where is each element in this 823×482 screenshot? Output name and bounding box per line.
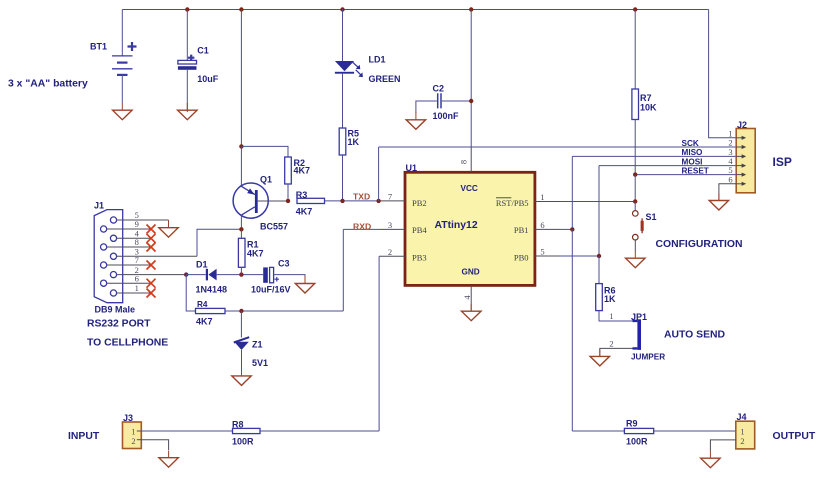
switch S1: [633, 211, 644, 240]
J2 pin 3 stub and arrow: [736, 154, 746, 158]
svg-text:GND: GND: [462, 268, 480, 277]
wire battery BT1 bottom: [121, 75, 123, 103]
svg-text:RST/PB5: RST/PB5: [496, 198, 529, 208]
svg-text:3: 3: [388, 220, 392, 230]
wire PB1 to OUTPUT riser: [560, 228, 572, 230]
resistor R9: [624, 428, 653, 433]
svg-text:6: 6: [135, 273, 139, 283]
junction Q1 collector node: [239, 227, 243, 231]
junction J1 pin2 / R4 branch: [184, 272, 188, 276]
zener diode Z1: [234, 337, 249, 350]
svg-text:4K7: 4K7: [294, 166, 311, 176]
jumper JP1: [633, 319, 642, 350]
svg-text:RESET: RESET: [682, 166, 709, 175]
wire RST net chip to S1: [560, 201, 635, 203]
wire C2 left: [416, 101, 437, 113]
svg-text:R7: R7: [640, 93, 652, 103]
wire C1 bottom: [186, 70, 188, 112]
svg-text:4K7: 4K7: [247, 249, 264, 259]
svg-text:S1: S1: [646, 212, 657, 222]
wire SCK vertical riser: [378, 147, 380, 201]
wire J3 pin1 to R8: [141, 430, 232, 432]
no-connect X pin 9: [147, 225, 156, 234]
wire D1 to R1/C3 node: [217, 274, 264, 276]
wire Q1 emitter column: [240, 10, 242, 147]
svg-text:INPUT: INPUT: [68, 431, 100, 442]
wire C1 top: [186, 10, 188, 61]
pin 8 stub VCC top: [470, 147, 472, 172]
no-connect X pin 7: [147, 261, 156, 270]
wire TXD net R3 to R5: [325, 200, 379, 202]
svg-text:AUTO SEND: AUTO SEND: [664, 330, 726, 341]
connector J1 DB9 body: [94, 210, 123, 303]
svg-text:2: 2: [740, 436, 744, 446]
wire J4 pin2 to ground: [710, 440, 735, 451]
J2 pin 6 stub and arrow: [736, 182, 746, 186]
svg-text:3 x "AA" battery: 3 x "AA" battery: [8, 79, 88, 90]
svg-text:4K7: 4K7: [196, 317, 213, 327]
wire pin3 riser to collector line: [197, 229, 241, 256]
resistor R4: [196, 308, 226, 313]
svg-text:R9: R9: [626, 419, 638, 429]
wire Q1 collector down: [240, 215, 242, 229]
J1 pin 7 wire: [107, 264, 152, 266]
svg-text:JP1: JP1: [631, 312, 647, 322]
junction RST/S1: [633, 199, 637, 203]
svg-text:PB2: PB2: [412, 198, 427, 208]
J1 pin 1 wire: [117, 292, 152, 294]
pin 4 stub GND bottom: [470, 285, 472, 311]
junction C2/VCC: [469, 99, 473, 103]
resistor R2: [285, 157, 292, 184]
wire R6 bottom to JP1 pin1: [599, 311, 633, 321]
svg-text:J2: J2: [737, 120, 747, 130]
pin name RST/PB5 with overline: [496, 198, 529, 208]
wire J2 pin6 to ground: [719, 184, 736, 200]
svg-text:C1: C1: [197, 46, 209, 56]
svg-text:1N4148: 1N4148: [196, 285, 228, 295]
svg-text:10uF/16V: 10uF/16V: [251, 285, 291, 295]
svg-text:RXD: RXD: [353, 222, 371, 232]
wire MOSI riser to PB0: [598, 166, 600, 256]
svg-text:6: 6: [728, 174, 732, 184]
wire R7 bottom to RESET: [634, 120, 636, 175]
wire to R2 top: [241, 146, 288, 157]
wire R1 top to collector node: [240, 229, 242, 238]
J3 pin 2 stub: [137, 439, 142, 441]
junction emitter/R2 node: [239, 144, 243, 148]
pin 5 stub PB0: [535, 255, 560, 257]
svg-text:TO CELLPHONE: TO CELLPHONE: [87, 338, 168, 349]
wire MISO net: [572, 155, 736, 157]
resistor R5: [339, 128, 346, 155]
junction R7 top rail: [633, 7, 637, 11]
svg-text:1K: 1K: [604, 294, 616, 304]
connector J4 body: [736, 421, 755, 449]
J2 pin 2 stub and arrow: [736, 145, 746, 149]
wire R1 bottom: [240, 267, 242, 274]
resistor R8: [233, 428, 261, 433]
no-connect X pin 1: [147, 289, 156, 298]
J3 pin 1 stub: [137, 430, 142, 432]
ground below S1: [626, 251, 645, 268]
svg-text:U1: U1: [406, 163, 418, 173]
svg-text:D1: D1: [196, 260, 208, 270]
J1 pin 8 circle: [101, 244, 107, 250]
svg-text:Z1: Z1: [252, 340, 263, 350]
svg-text:J3: J3: [123, 413, 133, 423]
ground below Z1: [232, 369, 251, 385]
wire PB3 riser: [378, 256, 380, 431]
J1 pin 9 wire: [107, 228, 152, 230]
svg-text:8: 8: [459, 160, 469, 164]
pin 2 stub PB3: [379, 255, 405, 257]
svg-text:CONFIGURATION: CONFIGURATION: [656, 239, 743, 250]
wire emitter into Q1: [240, 146, 242, 186]
wire JP1 pin 2 to ground: [600, 348, 633, 356]
svg-text:TXD: TXD: [353, 192, 370, 202]
svg-text:J1: J1: [94, 201, 104, 211]
ground at J2 pin 6: [709, 194, 728, 211]
junction R5/TXD: [340, 199, 344, 203]
svg-text:BC557: BC557: [260, 222, 288, 232]
wire RESET to RST pin line: [634, 175, 636, 202]
svg-text:PB3: PB3: [412, 253, 427, 263]
ground at J4 pin 2: [701, 451, 720, 468]
ground below BT1: [113, 103, 132, 120]
wire J3 pin2 to ground: [141, 440, 168, 450]
svg-text:7: 7: [135, 255, 139, 265]
wire Z1 bottom: [241, 350, 243, 376]
ground below C2: [406, 112, 425, 129]
wire OUTPUT riser corner to R9: [572, 430, 624, 432]
J1 pin 8 wire: [107, 246, 152, 248]
J1 pin 4 wire: [117, 237, 152, 239]
wire battery BT1 top: [121, 10, 123, 56]
resistor R7: [632, 89, 639, 120]
wire Z1 top: [240, 311, 242, 338]
wire pin2 node to D1: [186, 274, 206, 276]
battery BT1: [112, 42, 137, 75]
ground at JP1 pin 2: [590, 350, 609, 366]
J1 pin 5 wire: [117, 219, 169, 221]
wire MISO riser to PB1: [571, 156, 573, 229]
junction PB0/MOSI/R6: [597, 254, 601, 258]
no-connect X pin 6: [147, 279, 156, 288]
svg-text:1: 1: [740, 426, 744, 436]
svg-text:100nF: 100nF: [433, 111, 460, 121]
wire RXD vertical riser from R4 line: [342, 229, 344, 311]
ground at J3 pin 2: [159, 451, 178, 468]
J1 pin 9 circle: [101, 226, 107, 232]
junction D1/R1/C3 node: [239, 272, 243, 276]
wire pin2 node down to R4: [186, 275, 195, 311]
svg-text:10K: 10K: [640, 103, 657, 113]
J2 pin 4 stub and arrow: [736, 164, 746, 168]
svg-text:LD1: LD1: [369, 55, 386, 65]
svg-text:BT1: BT1: [90, 42, 107, 52]
junction C1 top: [185, 7, 189, 11]
wire OUTPUT riser down: [571, 229, 573, 431]
svg-text:100R: 100R: [626, 437, 648, 447]
svg-text:SCK: SCK: [682, 139, 699, 148]
junction R2/R3/base node: [286, 199, 290, 203]
svg-text:C3: C3: [278, 259, 290, 269]
wire SCK net: [379, 146, 737, 148]
wire PB0 to R6: [560, 255, 599, 257]
svg-text:MISO: MISO: [682, 148, 704, 157]
IC U1 ATtiny12 body: [405, 172, 535, 285]
svg-text:VCC: VCC: [461, 184, 478, 193]
svg-text:R4: R4: [197, 300, 208, 309]
svg-text:4K7: 4K7: [296, 207, 313, 217]
wire RESET net: [635, 174, 736, 176]
J1 pin 3 wire to riser: [117, 255, 197, 257]
svg-text:R3: R3: [296, 190, 308, 200]
svg-text:MOSI: MOSI: [682, 157, 703, 166]
svg-text:J4: J4: [737, 412, 747, 422]
svg-text:5: 5: [540, 247, 544, 257]
svg-text:OUTPUT: OUTPUT: [773, 431, 816, 442]
J4 pin 1 stub: [736, 430, 740, 432]
wire R8 to PB3 riser: [260, 430, 379, 432]
J1 pin 2 circle: [110, 272, 116, 278]
wire S1 bottom: [634, 240, 636, 252]
ground at J1 pin 5: [159, 220, 178, 237]
svg-text:7: 7: [388, 192, 392, 202]
pin 7 stub PB2: [379, 200, 405, 202]
J2 pin 5 stub and arrow: [736, 173, 746, 177]
wire LED to R5: [342, 74, 344, 128]
wire MOSI net: [599, 165, 736, 167]
wire C3 to ground: [274, 275, 305, 283]
capacitor C3: [263, 267, 279, 282]
connector J2 ISP body: [736, 129, 755, 193]
wire VCC column to chip: [470, 10, 472, 148]
svg-text:RS232 PORT: RS232 PORT: [87, 319, 151, 330]
resistor R3: [297, 198, 325, 203]
svg-text:1: 1: [540, 192, 544, 202]
wire S1 top: [634, 202, 636, 211]
svg-text:ATtiny12: ATtiny12: [435, 220, 478, 231]
wire VCC top rail: [122, 9, 708, 11]
ground at C3: [295, 276, 314, 293]
svg-text:DB9 Male: DB9 Male: [95, 305, 136, 315]
J1 pin 7 circle: [101, 262, 107, 268]
svg-text:5V1: 5V1: [252, 358, 268, 368]
connector J3 body: [123, 422, 142, 449]
svg-text:2: 2: [131, 436, 135, 446]
wire LED top: [342, 10, 344, 62]
svg-text:PB4: PB4: [412, 225, 427, 235]
J1 pin 3 circle: [110, 253, 116, 259]
junction LED branch: [340, 7, 344, 11]
svg-text:2: 2: [609, 339, 613, 349]
capacitor C2: [438, 93, 441, 108]
junction SCK/TXD: [376, 199, 380, 203]
junction Q1 branch: [239, 7, 243, 11]
wire R4 to RXD riser: [225, 310, 343, 312]
svg-text:10uF: 10uF: [197, 74, 219, 84]
J1 pin 6 circle: [101, 280, 107, 286]
svg-text:1K: 1K: [348, 137, 360, 147]
junction PB1/MISO/OUTPUT: [570, 227, 574, 231]
svg-text:JUMPER: JUMPER: [631, 353, 665, 362]
resistor R1: [238, 238, 245, 267]
ground below U1 GND pin: [462, 304, 482, 321]
wire R5 bottom: [342, 155, 344, 201]
junction R4/Z1: [239, 309, 243, 313]
pin 6 stub PB1: [535, 228, 560, 230]
transistor Q1: [233, 183, 288, 218]
pin 1 stub RST/PB5: [535, 201, 560, 203]
svg-text:R8: R8: [232, 420, 244, 430]
junction VCC column top: [469, 7, 473, 11]
LED LD1: [335, 61, 363, 77]
svg-text:2: 2: [388, 247, 392, 257]
J4 pin 2 stub: [736, 439, 740, 441]
wire R7 top: [634, 10, 636, 90]
svg-text:C2: C2: [433, 84, 445, 94]
J1 pin 4 circle: [110, 235, 116, 241]
resistor R6: [596, 284, 603, 311]
no-connect X pin 8: [147, 243, 156, 252]
J1 pin 6 wire: [107, 282, 152, 284]
pin 3 stub PB4: [380, 228, 405, 230]
wire R2 bottom: [287, 184, 289, 201]
J1 pin 5 circle: [110, 217, 116, 223]
wire R9 to J4 pin1: [654, 430, 736, 432]
wire R6 top: [598, 256, 600, 284]
J2 pin 1 stub and arrow: [736, 136, 746, 140]
wire RXD horizontal: [343, 228, 380, 230]
svg-text:PB0: PB0: [514, 253, 529, 263]
svg-text:1: 1: [135, 283, 139, 293]
junction R7/RESET: [633, 172, 637, 176]
svg-text:1: 1: [609, 311, 613, 321]
ground below C1: [178, 103, 197, 120]
wire C2 right to VCC column: [442, 100, 471, 102]
svg-text:Q1: Q1: [260, 175, 272, 185]
no-connect X pin 4: [147, 234, 156, 243]
J1 pin 1 circle: [110, 290, 116, 296]
svg-text:6: 6: [540, 220, 544, 230]
diode D1: [206, 269, 217, 281]
svg-text:1: 1: [131, 427, 135, 437]
J1 pin 2 wire: [117, 274, 187, 276]
svg-text:ISP: ISP: [773, 155, 792, 169]
capacitor C1: [178, 55, 197, 70]
svg-text:PB1: PB1: [514, 225, 529, 235]
svg-text:GREEN: GREEN: [369, 74, 401, 84]
svg-text:100R: 100R: [232, 437, 254, 447]
wire top rail drop to ISP pin1: [709, 10, 737, 138]
